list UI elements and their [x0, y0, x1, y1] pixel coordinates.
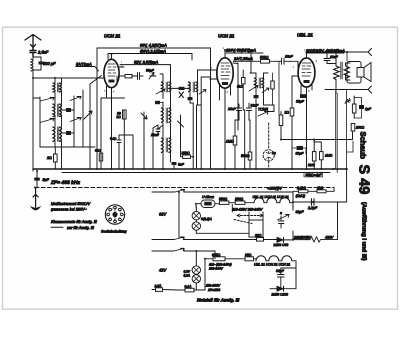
ground earth symbol [30, 188, 42, 210]
resistor 2M [312, 140, 316, 170]
capacitor 30uF [278, 268, 297, 289]
svg-text:42V: 42V [159, 268, 166, 273]
band coil A [53, 78, 62, 104]
switch row 2 [40, 118, 81, 123]
svg-text:110-230V: 110-230V [206, 283, 221, 287]
switch mains I [174, 237, 184, 240]
wire tube1 cathode drop [97, 78, 125, 169]
switch 62V [175, 190, 185, 193]
wire top to speaker terminal [327, 51, 368, 53]
svg-text:30µF: 30µF [276, 269, 285, 273]
svg-text:(86V),2,1(2)mA: (86V),2,1(2)mA [140, 50, 166, 54]
svg-text:2,5nF: 2,5nF [37, 50, 49, 55]
svg-text:210(190)V: 210(190)V [293, 236, 311, 240]
wire tube2 bottom region [225, 77, 245, 169]
svg-text:30Ω: 30Ω [255, 234, 262, 238]
svg-text:50kΩ: 50kΩ [260, 55, 269, 59]
resistor 1ohm right [352, 96, 364, 118]
mains plug box I [249, 212, 263, 237]
wire lamp vertical [178, 192, 180, 238]
wire mains line I [152, 237, 257, 239]
capacitor 500pF [33, 57, 44, 70]
IF transformer 1 [155, 72, 171, 108]
IF transformer 2 [188, 70, 207, 169]
svg-text:10nF: 10nF [330, 55, 339, 59]
rectifier diode I [277, 231, 293, 242]
trimmer capacitor B [62, 108, 75, 112]
resistor 50k lower [248, 120, 252, 169]
pin numbers tube2 [211, 46, 237, 94]
svg-text:UBL 21: UBL 21 [297, 33, 313, 38]
svg-text:10nF: 10nF [228, 107, 237, 111]
svg-text:62V: 62V [159, 212, 166, 217]
resistor 1k [315, 188, 334, 193]
svg-text:50kΩ+4µF: 50kΩ+4µF [306, 173, 323, 177]
wire mid x256 down [256, 100, 274, 169]
svg-text:ZF= 468 kHz: ZF= 468 kHz [50, 180, 81, 186]
resistor 5k cathode [99, 153, 102, 161]
wire plate tube3 to output [307, 51, 328, 53]
svg-text:68Ω: 68Ω [245, 253, 252, 257]
svg-text:6(0,3)A: 6(0,3)A [201, 217, 213, 221]
resistor 50k horizontal [233, 60, 281, 64]
svg-text:32µF: 32µF [296, 210, 305, 214]
svg-text:580Ω: 580Ω [219, 197, 228, 201]
svg-text:465V: 465V [325, 235, 334, 239]
pin numbers tube1 [98, 55, 124, 94]
wire tube2 plate to IF output [225, 50, 251, 73]
capacitor 10nF det [237, 104, 242, 120]
ballast U-Eisen [196, 200, 219, 208]
svg-text:La: La [272, 151, 276, 155]
heater bumps I [254, 198, 293, 210]
terminal fork top [364, 49, 372, 56]
variable capacitor arrow [84, 111, 92, 119]
resistor 30ohm [257, 238, 277, 242]
capacitor 5nF left [34, 171, 40, 188]
svg-text:1MΩ: 1MΩ [226, 140, 234, 144]
svg-text:UCH 21: UCH 21 [104, 34, 121, 39]
svg-text:S 49: S 49 [356, 165, 372, 195]
svg-text:52V, 2,5(6)mA: 52V, 2,5(6)mA [134, 61, 159, 65]
wire avc horizontal [281, 131, 353, 140]
svg-text:2Ω: 2Ω [46, 156, 52, 160]
IF output transformer [249, 73, 269, 108]
lamps 42V [192, 251, 200, 290]
band coil C [53, 127, 62, 147]
wire 62V top line [152, 190, 293, 203]
svg-text:Netzteil für Ausfg. III: Netzteil für Ausfg. III [197, 298, 240, 303]
svg-text:100Ω: 100Ω [356, 126, 365, 130]
switch row 1 [40, 97, 81, 102]
svg-text:Meßinstrument 500Ω/V: Meßinstrument 500Ω/V [51, 202, 91, 206]
selector dashed arrows [234, 214, 263, 224]
wire drop x124 [112, 88, 125, 169]
fuse 01A [179, 259, 205, 292]
oscillator coil [162, 108, 171, 130]
resistor 975 [205, 257, 245, 261]
tone switch TONF [258, 105, 274, 116]
resistor under tube1 [119, 75, 136, 78]
rectifier diode III [270, 274, 296, 291]
svg-text:50pF: 50pF [146, 69, 155, 73]
svg-text:50µF: 50µF [296, 100, 305, 104]
resistor 5k screen [242, 70, 246, 110]
wire volume pot top [314, 140, 321, 143]
svg-text:0,1µ: 0,1µ [110, 137, 116, 141]
svg-text:2,5A: 2,5A [154, 284, 163, 288]
wire x133 drop [119, 135, 133, 169]
terminal fork bottom [368, 86, 372, 93]
svg-text:Schaub: Schaub [359, 132, 368, 160]
antenna [25, 35, 41, 50]
wire right verticals tuning [74, 84, 90, 147]
svg-text:50µF: 50µF [296, 152, 305, 156]
resistor grid tube3 [290, 108, 294, 116]
resistor 1M vertical [233, 120, 239, 169]
output transformer [334, 52, 350, 90]
dial lamp dashed [263, 123, 274, 169]
wire top horizontal y78 [33, 77, 97, 79]
svg-text:0,3A: 0,3A [184, 274, 191, 278]
svg-text:(1MΩ): (1MΩ) [296, 194, 306, 198]
tube socket diagram [105, 205, 124, 224]
trimmer capacitor C [62, 131, 75, 135]
capacitor cathode tube3 [300, 94, 307, 98]
wire osc grid [153, 125, 158, 169]
resistor 68 [245, 257, 256, 261]
wires tuning to bus [62, 147, 91, 169]
heater bumps III [256, 256, 296, 274]
wire vertical from line1 [96, 48, 98, 78]
antenna coil [31, 56, 33, 78]
grid cap wire tube1 [90, 76, 102, 85]
svg-text:a: a [280, 211, 282, 215]
wire IF2 to tube2 [198, 70, 211, 169]
resistor diagonal speaker return [345, 99, 350, 104]
svg-text:10nF: 10nF [285, 55, 294, 59]
svg-text:UBL 21 UCH 21 UCH 21: UBL 21 UCH 21 UCH 21 [254, 263, 290, 267]
resistor tone vertical [279, 112, 283, 140]
resistor 2,2k [293, 190, 315, 193]
wire 42V line [152, 249, 215, 259]
svg-text:2A/7,35mA: 2A/7,35mA [233, 57, 253, 61]
capacitor 10nF tone [324, 52, 336, 64]
svg-text:2MΩ: 2MΩ [307, 163, 315, 167]
svg-text:nur für Ausfg. III: nur für Ausfg. III [67, 226, 95, 230]
main bus line y172.5 [62, 172, 330, 174]
resistor 28ohm vertical [54, 147, 58, 169]
fuse 25A [152, 288, 179, 292]
svg-text:110-120V 220-240V: 110-120V 220-240V [232, 208, 263, 212]
svg-text:20kΩ: 20kΩ [181, 151, 190, 155]
svg-text:0,1A: 0,1A [185, 284, 193, 288]
switch 42V [174, 248, 184, 251]
svg-text:UCH 21: UCH 21 [218, 34, 235, 39]
wire drop 580 [231, 204, 233, 212]
AVC dashed bus [35, 187, 334, 189]
svg-text:2,2kΩ: 2,2kΩ [296, 186, 306, 190]
tube UCH21 #2 [204, 50, 238, 110]
svg-text:gemessen bei 220V~: gemessen bei 220V~ [51, 208, 88, 212]
svg-text:5nF: 5nF [178, 163, 185, 167]
svg-text:290Ω: 290Ω [234, 197, 244, 201]
switch osc [178, 115, 184, 140]
tuning block left vertical [33, 97, 95, 147]
resistor avc divider [271, 73, 274, 105]
switch a [278, 203, 294, 220]
resistor 50k vertical osc [123, 110, 127, 169]
svg-text:(Ausführung I und III): (Ausführung I und III) [361, 202, 368, 261]
svg-text:15+25%: 15+25% [208, 288, 220, 292]
wire line 3 [108, 54, 171, 73]
capacitor 5nF osc [172, 162, 177, 169]
trimmer osc [141, 112, 147, 169]
svg-text:2Ω: 2Ω [284, 111, 290, 115]
pin numbers tube3 [293, 48, 318, 93]
dial lamps 62V [192, 204, 249, 234]
svg-text:180V, 50(&71)mA: 180V, 50(&71)mA [226, 49, 256, 53]
wire right column [336, 52, 353, 173]
speaker [347, 62, 371, 84]
capacitor 50nF det [247, 103, 252, 120]
capacitor coupling tube3 [282, 58, 299, 64]
capacitor 2,5nF [30, 49, 36, 56]
B plus line caps [293, 169, 347, 240]
wire screen tube2 down [237, 63, 239, 77]
svg-text:+185(4)V: +185(4)V [267, 187, 282, 191]
resistor 100 vertical right [351, 124, 355, 132]
svg-text:21nF: 21nF [150, 133, 160, 137]
osc coil lower [162, 128, 171, 169]
svg-text:86V, 4,2(&7)mA: 86V, 4,2(&7)mA [140, 44, 167, 48]
svg-text:975Ω: 975Ω [212, 253, 221, 257]
label nur fuer [51, 226, 63, 228]
wire avc drop [278, 61, 280, 115]
padder capacitor [156, 125, 163, 136]
wire left bus down [32, 78, 34, 171]
svg-text:1kΩ: 1kΩ [317, 186, 324, 190]
main bus line y169 [33, 168, 347, 170]
resistor 580 [219, 201, 235, 204]
svg-text:kΩ: kΩ [117, 115, 122, 119]
svg-text:2,2µF: 2,2µF [307, 206, 318, 210]
svg-text:U-Eisen: U-Eisen [202, 195, 214, 199]
svg-text:1MΩ: 1MΩ [325, 154, 333, 158]
svg-text:Klammerwerte für Ausfg. III: Klammerwerte für Ausfg. III [51, 220, 98, 224]
capacitor 10nF tube1 [136, 73, 156, 80]
wire top line 86V [97, 48, 211, 169]
resistor 290 [235, 201, 254, 204]
svg-text:B250 C100: B250 C100 [272, 292, 289, 296]
tube UBL21 [292, 52, 315, 108]
wire line 2 [108, 54, 192, 61]
svg-text:5kΩ: 5kΩ [95, 149, 101, 153]
svg-text:5nF: 5nF [43, 178, 50, 182]
svg-text:50kΩ: 50kΩ [241, 154, 250, 158]
svg-text:220-240V: 220-240V [208, 267, 224, 271]
band coil B [53, 104, 62, 127]
svg-text:B250 C50: B250 C50 [274, 243, 289, 247]
svg-text:Sockelschaltung: Sockelschaltung [101, 230, 127, 234]
svg-text:TONF.: TONF. [258, 108, 269, 112]
resistor 20k [181, 140, 194, 158]
svg-text:1µF: 1µF [365, 107, 372, 111]
bleeder resistor WW [293, 237, 338, 242]
wire tube3 cathode down [292, 90, 336, 170]
svg-text:500 pF: 500 pF [43, 61, 56, 66]
capacitor selector [279, 216, 285, 228]
capacitor 0,1uF mid [117, 135, 121, 169]
tube UCH21 #1 [97, 54, 124, 110]
svg-text:5A/71mA: 5A/71mA [76, 63, 92, 67]
resistor 1M right [320, 142, 324, 169]
wire speaker bottom to terminal [325, 89, 368, 91]
capacitor avc 50uF [292, 146, 306, 154]
resistor coupling IF1 [171, 87, 191, 98]
